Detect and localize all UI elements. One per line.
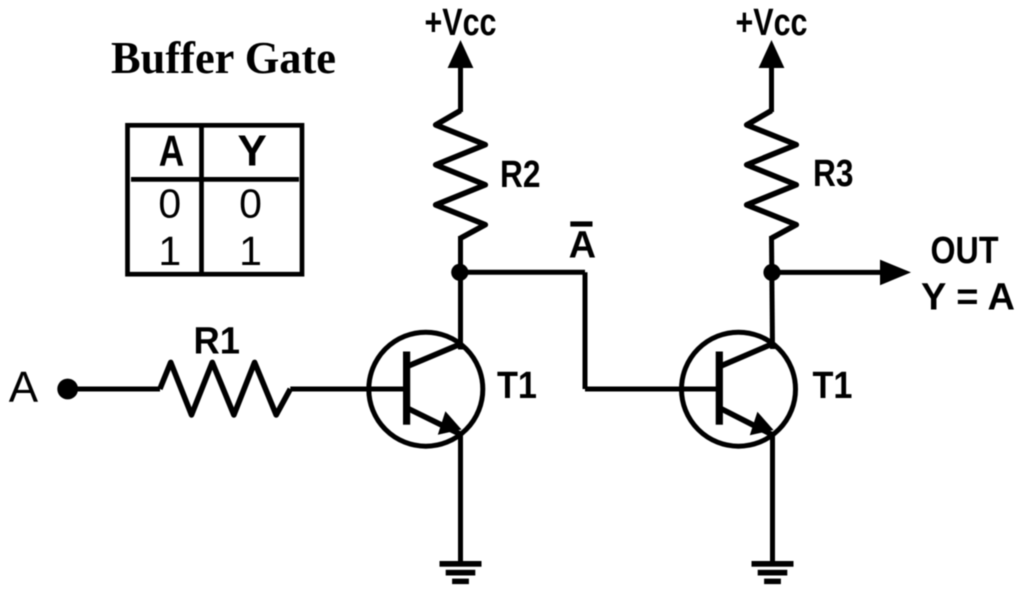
svg-text:+Vcc: +Vcc [736, 2, 808, 44]
svg-text:1: 1 [239, 228, 262, 274]
svg-text:Buffer Gate: Buffer Gate [111, 32, 336, 83]
svg-text:Y = A: Y = A [921, 277, 1015, 319]
svg-text:+Vcc: +Vcc [425, 2, 497, 44]
svg-text:T1: T1 [813, 365, 853, 407]
svg-text:A: A [569, 224, 596, 266]
svg-text:R1: R1 [193, 321, 240, 363]
svg-text:A: A [9, 363, 39, 412]
svg-text:OUT: OUT [931, 230, 999, 272]
svg-text:A: A [159, 127, 185, 176]
svg-text:R3: R3 [813, 153, 854, 195]
svg-text:0: 0 [239, 181, 262, 227]
svg-text:1: 1 [158, 228, 181, 274]
svg-text:R2: R2 [500, 154, 541, 196]
svg-text:T1: T1 [497, 365, 537, 407]
svg-text:Y: Y [238, 127, 267, 176]
svg-text:0: 0 [158, 181, 181, 227]
